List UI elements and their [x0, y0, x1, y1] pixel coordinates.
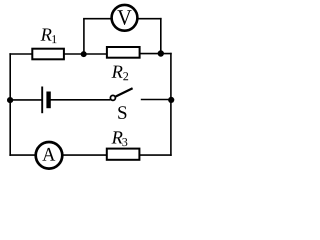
voltmeter label V [117, 10, 131, 25]
junction B (R2/voltmeter/right rail) [158, 50, 164, 56]
wire: voltmeter branch top-left segment [83, 18, 112, 20]
voltmeter U1 circle [112, 5, 138, 31]
ammeter label A [42, 148, 55, 161]
switch S lever [116, 88, 133, 96]
battery cell [42, 87, 48, 114]
wire: voltmeter branch riser from junction A [83, 19, 85, 55]
resistor R2 [107, 47, 140, 58]
wire: R2 to top-right corner [140, 53, 172, 55]
wire: R3 to bottom-right corner [140, 154, 172, 156]
wire: battery to switch [50, 99, 110, 101]
label R1 [41, 28, 57, 43]
wire: middle row, left rail to battery [9, 99, 41, 101]
wire: junction A to R2 [83, 53, 108, 55]
ammeter U2 circle [36, 142, 63, 169]
switch S pivot [110, 95, 115, 100]
wire: ammeter to R3 [61, 154, 108, 156]
wire: voltmeter branch top-right segment [137, 18, 162, 20]
wire: voltmeter branch drop to junction B [160, 18, 162, 54]
wire: right rail vertical [170, 53, 172, 156]
wire: bottom row, left corner to ammeter [9, 154, 38, 156]
label R3 [112, 131, 128, 146]
junction C (left rail/battery) [7, 97, 13, 103]
wire: switch to right rail [141, 99, 172, 101]
wire: top row, left rail to R1 [9, 53, 33, 55]
label R2 [112, 66, 129, 81]
resistor R1 [32, 49, 64, 60]
wire: R1 to junction A [63, 53, 85, 55]
resistor R3 [107, 149, 140, 160]
junction A (R1/R2/voltmeter) [81, 51, 87, 57]
label S [118, 106, 126, 119]
junction D (switch/right rail) [168, 97, 174, 103]
wire: left rail vertical [9, 53, 11, 156]
